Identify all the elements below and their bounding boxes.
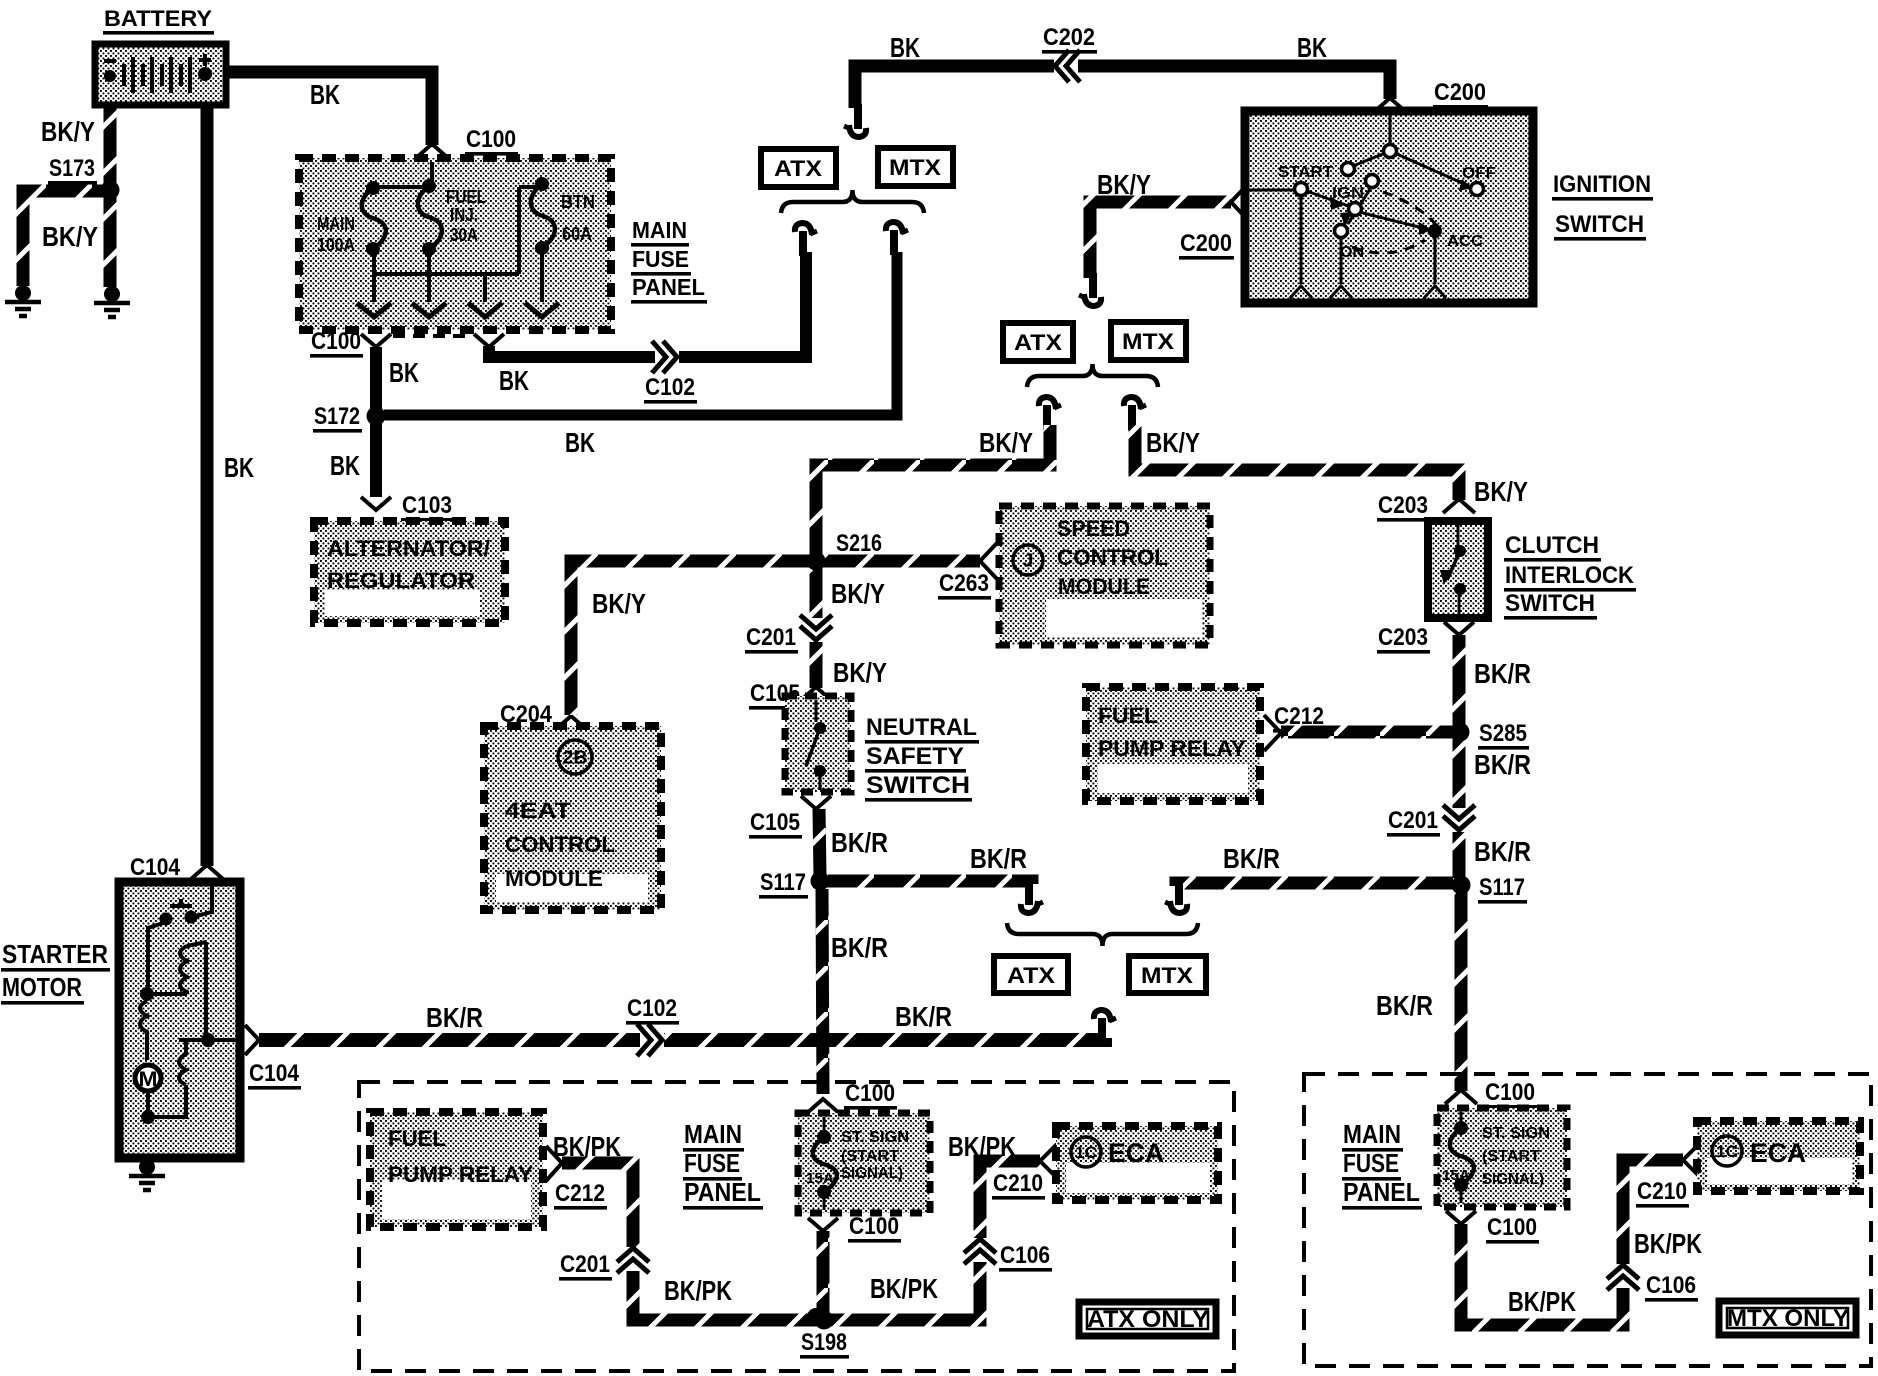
svg-text:SIGNAL): SIGNAL) xyxy=(841,1165,903,1182)
bracket starter C104 xyxy=(245,1025,259,1055)
label BK at second pin xyxy=(499,365,529,396)
svg-text:BK: BK xyxy=(389,357,419,388)
connector C210 right label xyxy=(1636,1178,1689,1208)
svg-text:INJ.: INJ. xyxy=(450,205,478,225)
label STARTER MOTOR xyxy=(1,939,110,1005)
svg-text:C100: C100 xyxy=(311,328,361,355)
neutral safety switch xyxy=(785,696,851,792)
main fuse panel xyxy=(299,158,611,330)
svg-text:BK/Y: BK/Y xyxy=(1146,427,1200,458)
svg-text:START: START xyxy=(1278,164,1333,181)
svg-text:S198: S198 xyxy=(801,1329,847,1356)
fuse FUEL INJ 30A xyxy=(418,179,442,256)
pin 1C circle ECA mid xyxy=(1071,1137,1101,1167)
svg-text:INTERLOCK: INTERLOCK xyxy=(1505,562,1635,589)
connector C103 xyxy=(401,492,454,522)
label FUEL PUMP RELAY left xyxy=(388,1126,533,1187)
label ST. SIGN START SIGNAL mid xyxy=(841,1129,909,1182)
svg-text:ATX: ATX xyxy=(774,156,822,181)
svg-text:MAIN: MAIN xyxy=(684,1119,742,1149)
label MAIN FUSE PANEL mid xyxy=(683,1119,763,1210)
connector C201 in-line bottom xyxy=(617,1247,649,1273)
svg-text:ON: ON xyxy=(1340,244,1364,261)
svg-text:BK/R: BK/R xyxy=(831,827,888,858)
svg-text:J: J xyxy=(1023,550,1034,570)
svg-text:60A: 60A xyxy=(562,224,592,244)
wire BK/Y ATX branch to S216 xyxy=(816,425,1050,555)
svg-text:30A: 30A xyxy=(450,225,478,245)
label box ATX 2 xyxy=(1003,323,1073,361)
svg-text:BATTERY: BATTERY xyxy=(104,6,212,31)
svg-text:4EAT: 4EAT xyxy=(505,798,572,823)
svg-text:SAFETY: SAFETY xyxy=(866,743,964,770)
connector C200 left label xyxy=(1179,230,1234,260)
label box MTX 3 xyxy=(1129,956,1206,993)
connector C104 bottom label xyxy=(248,1060,301,1090)
node S172 splice xyxy=(313,403,362,433)
hook MTX3 xyxy=(1165,880,1187,913)
wire BK/R fuel pump relay to S285 xyxy=(1281,726,1453,739)
svg-text:C103: C103 xyxy=(402,492,452,519)
svg-text:BK: BK xyxy=(499,365,529,396)
junction dots overlay xyxy=(101,181,1471,1330)
label BK/Y ATX2 xyxy=(979,427,1033,458)
svg-text:ST. SIGN: ST. SIGN xyxy=(1482,1125,1550,1142)
svg-text:C201: C201 xyxy=(1388,807,1438,834)
svg-text:MODULE: MODULE xyxy=(1058,574,1150,599)
label FUEL PUMP RELAY right xyxy=(1098,703,1246,761)
svg-text:BK: BK xyxy=(330,450,360,481)
svg-text:SPEED: SPEED xyxy=(1057,516,1130,541)
hook ignition feed end xyxy=(1079,273,1101,306)
svg-text:ATX: ATX xyxy=(1014,330,1062,355)
svg-text:BK: BK xyxy=(224,452,254,483)
svg-text:C100: C100 xyxy=(1485,1079,1535,1106)
wire BK/Y S216 down to C201 xyxy=(810,567,823,688)
fuse BTN 60A xyxy=(531,177,555,255)
svg-text:BK/PK: BK/PK xyxy=(1634,1228,1702,1259)
brace ATX/MTX pair 2 xyxy=(1027,364,1158,387)
svg-text:S172: S172 xyxy=(314,403,360,430)
svg-text:ACC: ACC xyxy=(1447,233,1483,250)
connector C202 in-line xyxy=(1054,50,1080,82)
wire BK/Y battery negative drop to S173 xyxy=(104,104,117,190)
label ALTERNATOR REGULATOR xyxy=(327,536,490,593)
connector C105 top xyxy=(749,680,802,710)
svg-text:BK/R: BK/R xyxy=(1474,749,1531,780)
fuse internal leads right xyxy=(1460,1112,1463,1203)
svg-text:C102: C102 xyxy=(627,995,677,1022)
connector C100 fuse panel top xyxy=(465,126,518,156)
svg-text:FUSE: FUSE xyxy=(684,1148,740,1178)
connector C100 right top xyxy=(1484,1079,1537,1109)
svg-text:C201: C201 xyxy=(746,624,796,651)
node S216 splice xyxy=(835,530,884,560)
svg-text:ATX ONLY: ATX ONLY xyxy=(1087,1306,1209,1333)
ground G2 battery xyxy=(94,286,130,317)
node S285 splice xyxy=(1478,720,1529,750)
svg-text:C100: C100 xyxy=(1487,1214,1537,1241)
svg-text:15A: 15A xyxy=(806,1170,834,1187)
label BK/Y MTX2 xyxy=(1146,427,1200,458)
connector C200 ignition switch top xyxy=(1433,79,1488,109)
svg-text:100A: 100A xyxy=(317,235,355,255)
wire BK/R S117 down to C100 xyxy=(822,889,823,1094)
bracket fuel pump relay right xyxy=(1264,715,1281,751)
ground G3 starter motor xyxy=(129,1158,165,1190)
wire BK/Y ignition switch to ATX/MTX pair 2 xyxy=(1090,202,1231,278)
4EAT control module xyxy=(484,726,661,910)
wire BK fuse panel to S172 xyxy=(370,347,382,409)
pin J circle speed control xyxy=(1013,545,1043,575)
connector C212 right xyxy=(1273,703,1326,733)
label ACC xyxy=(1447,233,1483,250)
svg-text:BTN: BTN xyxy=(561,192,595,212)
svg-text:C104: C104 xyxy=(249,1060,300,1087)
connector C102 in-line bottom xyxy=(637,1024,664,1056)
svg-text:OFF: OFF xyxy=(1462,165,1496,182)
wire BK/Y S173 branch to left ground xyxy=(23,191,110,286)
svg-text:15A: 15A xyxy=(1442,1167,1470,1184)
svg-text:C203: C203 xyxy=(1378,492,1428,519)
svg-text:ECA: ECA xyxy=(1750,1138,1806,1168)
label box MTX 2 xyxy=(1111,322,1186,360)
label BK battery-starter xyxy=(224,452,254,483)
connector C100 mid bottom xyxy=(848,1213,901,1243)
label BK/R below C203 xyxy=(1474,658,1531,689)
label BK battery feed xyxy=(310,79,340,110)
svg-text:BK: BK xyxy=(565,427,595,458)
label CLUTCH INTERLOCK SWITCH xyxy=(1504,532,1636,620)
connector C201 right in-line xyxy=(1443,805,1475,832)
label box ATX 1 xyxy=(761,149,836,187)
label BK/PK right riser xyxy=(1634,1228,1702,1259)
label BK/R starter run xyxy=(426,1002,483,1033)
svg-text:BK/Y: BK/Y xyxy=(1474,476,1528,507)
hook BK/R end xyxy=(1094,1010,1116,1043)
svg-text:C212: C212 xyxy=(555,1180,605,1207)
svg-text:BK/Y: BK/Y xyxy=(592,588,646,619)
svg-text:SWITCH: SWITCH xyxy=(866,772,970,799)
svg-text:C106: C106 xyxy=(1646,1272,1696,1299)
svg-text:FUEL: FUEL xyxy=(446,187,486,207)
wire BK/R clutch switch to S285 xyxy=(1453,635,1466,878)
label SPEED CONTROL MODULE xyxy=(1057,516,1168,599)
label 15A mid xyxy=(806,1170,834,1187)
wire BK S172 to MTX branch xyxy=(384,252,897,415)
fuse panel output pin arrows xyxy=(357,303,559,317)
svg-text:ATX: ATX xyxy=(1007,963,1055,988)
label MAIN FUSE PANEL right xyxy=(1342,1119,1422,1210)
wire BK/PK C100 to S198 xyxy=(817,1231,830,1320)
svg-text:SWITCH: SWITCH xyxy=(1555,211,1644,238)
svg-text:C105: C105 xyxy=(750,809,800,836)
battery B1 xyxy=(95,6,226,105)
svg-text:BK/R: BK/R xyxy=(1376,990,1433,1021)
svg-text:REGULATOR: REGULATOR xyxy=(327,568,475,593)
ignition switch xyxy=(1245,111,1533,303)
label BK/Y at C203 xyxy=(1474,476,1528,507)
wire BK/Y MTX branch to C203 clutch interlock xyxy=(1135,425,1459,500)
svg-text:MTX: MTX xyxy=(889,155,941,180)
wire BK fuse panel second pin to C102 to ATX branch xyxy=(489,252,806,357)
alternator/regulator xyxy=(314,521,505,623)
label ECA right xyxy=(1750,1138,1806,1168)
start signal fuse box right xyxy=(1437,1108,1567,1207)
label BK/Y upper xyxy=(41,116,95,147)
hook at C202 left end xyxy=(844,104,866,137)
svg-text:C201: C201 xyxy=(560,1251,610,1278)
svg-text:BK/Y: BK/Y xyxy=(41,116,95,147)
svg-text:S117: S117 xyxy=(760,869,806,896)
connector C106 right in-line xyxy=(1607,1264,1639,1290)
svg-text:PUMP RELAY: PUMP RELAY xyxy=(388,1162,533,1187)
label NEUTRAL SAFETY SWITCH xyxy=(865,714,979,802)
connector C100 fuse panel bottom xyxy=(310,328,363,358)
start signal fuse box mid xyxy=(798,1113,930,1213)
bracket ECA mid xyxy=(1040,1144,1057,1178)
svg-text:CONTROL: CONTROL xyxy=(505,832,615,857)
svg-text:BK/R: BK/R xyxy=(831,932,888,963)
svg-text:CLUTCH: CLUTCH xyxy=(1505,532,1599,559)
svg-text:BK/PK: BK/PK xyxy=(664,1275,732,1306)
svg-text:MAIN: MAIN xyxy=(317,214,355,234)
fuse internal leads mid xyxy=(823,1117,826,1210)
svg-text:SIGNAL): SIGNAL) xyxy=(1482,1171,1544,1188)
svg-text:(START: (START xyxy=(1482,1148,1540,1165)
label FUEL INJ. 30A xyxy=(446,187,486,245)
hook ATX branch 2 xyxy=(1039,397,1061,430)
svg-text:C100: C100 xyxy=(466,126,516,153)
fuse MAIN 100A xyxy=(362,181,386,256)
svg-text:ECA: ECA xyxy=(1108,1138,1164,1168)
svg-text:BK/Y: BK/Y xyxy=(831,578,885,609)
label ON xyxy=(1340,244,1364,261)
svg-text:C102: C102 xyxy=(645,374,695,401)
wire BK/R starter motor to ATX only region xyxy=(259,1038,1105,1040)
label BK/Y below C201 xyxy=(833,657,887,688)
svg-text:MTX: MTX xyxy=(1122,329,1174,354)
svg-text:C263: C263 xyxy=(939,570,989,597)
label box MTX ONLY xyxy=(1719,1301,1856,1335)
label BK/R below S117 xyxy=(831,932,888,963)
ECA module mid xyxy=(1056,1126,1218,1200)
svg-text:BK: BK xyxy=(310,79,340,110)
connector C212 left xyxy=(554,1180,607,1210)
connector C210 label mid xyxy=(992,1170,1045,1200)
svg-text:CONTROL: CONTROL xyxy=(1057,545,1168,570)
fuse 15A start signal mid xyxy=(813,1130,837,1199)
region box MTX only xyxy=(1304,1074,1871,1366)
svg-text:BK/Y: BK/Y xyxy=(979,427,1033,458)
hook MTX branch 1 xyxy=(886,222,908,255)
label BK right of C202 xyxy=(1297,32,1327,63)
svg-text:FUSE: FUSE xyxy=(1343,1148,1399,1178)
label BK/Y lower xyxy=(42,221,98,252)
svg-text:C202: C202 xyxy=(1043,24,1095,51)
label BK/R right of crossing xyxy=(895,1001,952,1032)
label box ATX 3 xyxy=(994,956,1068,993)
bracket ECA right xyxy=(1683,1143,1700,1177)
svg-text:C104: C104 xyxy=(130,854,181,881)
bracket at ignition switch C200 xyxy=(1231,186,1246,218)
svg-text:M: M xyxy=(139,1068,158,1091)
connector C100 mid top xyxy=(844,1080,897,1110)
connector C263 label xyxy=(938,570,991,600)
connector C201 in-line xyxy=(800,615,832,642)
hook ATX branch 1 xyxy=(795,223,817,256)
svg-text:BK/Y: BK/Y xyxy=(833,657,887,688)
bracket C263 speed control xyxy=(980,543,997,579)
pin 2B circle 4EAT xyxy=(558,740,592,774)
svg-text:S117: S117 xyxy=(1479,874,1525,901)
wire BK/R S117 right down to C100 xyxy=(1455,891,1468,1091)
svg-text:IGNITION: IGNITION xyxy=(1553,171,1651,198)
svg-text:BK/PK: BK/PK xyxy=(1508,1286,1576,1317)
svg-text:MOTOR: MOTOR xyxy=(2,972,82,1002)
fuse 15A start signal right xyxy=(1450,1121,1474,1192)
svg-text:FUSE: FUSE xyxy=(632,246,689,272)
svg-text:STARTER: STARTER xyxy=(2,939,108,969)
label OFF xyxy=(1462,165,1496,182)
connector C203 top xyxy=(1377,492,1430,522)
connector C204 4EAT xyxy=(499,701,554,731)
svg-text:NEUTRAL: NEUTRAL xyxy=(866,714,977,741)
wire BK battery to starter motor xyxy=(201,105,214,866)
label BK left of C202 xyxy=(890,32,920,63)
brace ATX/MTX pair 1 xyxy=(781,190,924,213)
label BK/Y below S216 xyxy=(831,578,885,609)
svg-text:S173: S173 xyxy=(49,155,95,182)
connector C104 top xyxy=(129,854,182,884)
svg-text:S285: S285 xyxy=(1479,720,1527,747)
label BK/PK at relay xyxy=(553,1131,621,1162)
svg-text:IGN: IGN xyxy=(1332,185,1364,202)
connector C106 in-line xyxy=(964,1238,996,1264)
svg-text:MTX ONLY: MTX ONLY xyxy=(1727,1305,1849,1332)
svg-text:1C: 1C xyxy=(1075,1143,1097,1162)
svg-text:PUMP RELAY: PUMP RELAY xyxy=(1098,736,1246,761)
label 15A right xyxy=(1442,1167,1470,1184)
label START xyxy=(1278,164,1333,181)
wire BK S172 down to C103 xyxy=(370,423,382,497)
wire BK/R S117 to ATX connector xyxy=(826,881,1032,884)
label BK/PK bottom right xyxy=(1508,1286,1576,1317)
svg-text:MTX: MTX xyxy=(1141,963,1193,988)
svg-text:ST. SIGN: ST. SIGN xyxy=(841,1129,909,1146)
ECA module right xyxy=(1697,1121,1860,1191)
svg-text:BK/R: BK/R xyxy=(1223,843,1280,874)
label BK/R right run xyxy=(1223,843,1280,874)
svg-text:BK/R: BK/R xyxy=(970,843,1027,874)
fuse panel internal bus wiring xyxy=(373,162,542,302)
label BK/Y ignition feed xyxy=(1097,169,1151,200)
svg-text:ALTERNATOR/: ALTERNATOR/ xyxy=(327,536,490,561)
connector C100 right bottom xyxy=(1486,1214,1539,1244)
svg-text:BK: BK xyxy=(1297,32,1327,63)
svg-text:BK/R: BK/R xyxy=(1474,658,1531,689)
label IGNITION SWITCH xyxy=(1552,171,1653,241)
svg-text:PANEL: PANEL xyxy=(632,274,705,300)
svg-text:BK/R: BK/R xyxy=(895,1001,952,1032)
starter motor xyxy=(119,882,240,1158)
svg-text:FUEL: FUEL xyxy=(1098,703,1158,728)
connector C105 bottom xyxy=(749,809,802,839)
svg-text:C210: C210 xyxy=(993,1170,1043,1197)
speed control module xyxy=(999,506,1210,645)
label ST. SIGN START SIGNAL right xyxy=(1482,1125,1550,1188)
clutch interlock switch xyxy=(1428,521,1488,618)
wire BK/Y 4EAT to S216 xyxy=(571,561,810,715)
svg-text:FUEL: FUEL xyxy=(388,1126,446,1151)
region box ATX only xyxy=(359,1082,1234,1371)
label BK on S172 run xyxy=(565,427,595,458)
svg-text:S216: S216 xyxy=(836,530,882,557)
connector C203 bottom xyxy=(1377,624,1430,654)
node S198 splice xyxy=(800,1329,849,1359)
pin 1C circle ECA right xyxy=(1712,1136,1742,1166)
svg-text:MODULE: MODULE xyxy=(505,866,603,891)
wire BK/PK fuel pump relay to S198 xyxy=(562,1163,824,1320)
hook ATX3 xyxy=(1021,880,1043,913)
svg-text:C210: C210 xyxy=(1637,1178,1687,1205)
label MAIN FUSE PANEL xyxy=(631,217,707,304)
label box MTX 1 xyxy=(878,148,953,186)
label BTN 60A xyxy=(561,192,595,244)
label ECA mid xyxy=(1108,1138,1164,1168)
label 4EAT CONTROL MODULE xyxy=(505,798,615,891)
svg-text:PANEL: PANEL xyxy=(684,1177,761,1207)
svg-text:C106: C106 xyxy=(1000,1242,1050,1269)
hook MTX branch 2 xyxy=(1124,397,1146,430)
svg-text:BK/PK: BK/PK xyxy=(870,1273,938,1304)
label BK/R below C201 right xyxy=(1474,836,1531,867)
label BK/Y 4EAT riser xyxy=(592,588,646,619)
fuel pump relay left xyxy=(370,1112,543,1227)
ground G1 left xyxy=(5,285,41,316)
node S117 splice right xyxy=(1478,874,1527,904)
svg-text:C200: C200 xyxy=(1180,230,1232,257)
bracket fuel pump relay left xyxy=(546,1146,562,1181)
svg-text:(START: (START xyxy=(841,1148,899,1165)
label BK above C103 xyxy=(330,450,360,481)
svg-text:MAIN: MAIN xyxy=(632,217,687,243)
connector C102 in-line xyxy=(652,341,679,373)
wire BK/R right S117 to MTX connector xyxy=(1176,883,1453,886)
svg-text:BK/R: BK/R xyxy=(1474,836,1531,867)
svg-text:C203: C203 xyxy=(1378,624,1428,651)
label BK/PK left of S198 xyxy=(664,1275,732,1306)
label BK/R bottom right riser xyxy=(1376,990,1433,1021)
svg-text:MAIN: MAIN xyxy=(1343,1119,1401,1149)
label BK/R S117 right xyxy=(970,843,1027,874)
node S173 splice xyxy=(48,155,97,185)
node S117 splice left xyxy=(759,869,808,899)
brace ATX/MTX pair 3 xyxy=(1007,923,1198,946)
wire BK C202 trunk to ignition switch xyxy=(855,66,1390,108)
wire BK/Y S173 down to right ground xyxy=(104,190,117,287)
wire BK/Y S216 to speed control module C263 xyxy=(822,555,980,568)
wire BK/PK C100 right to ECA right xyxy=(1461,1160,1683,1325)
label BK/R below C105 xyxy=(831,827,888,858)
svg-text:PANEL: PANEL xyxy=(1343,1177,1420,1207)
label BK/R below S285 xyxy=(1474,749,1531,780)
svg-text:SWITCH: SWITCH xyxy=(1505,590,1595,617)
label IGN xyxy=(1332,185,1364,202)
svg-text:C200: C200 xyxy=(1434,79,1486,106)
label BK/PK right of S198 xyxy=(870,1273,938,1304)
svg-text:C100: C100 xyxy=(845,1080,895,1107)
